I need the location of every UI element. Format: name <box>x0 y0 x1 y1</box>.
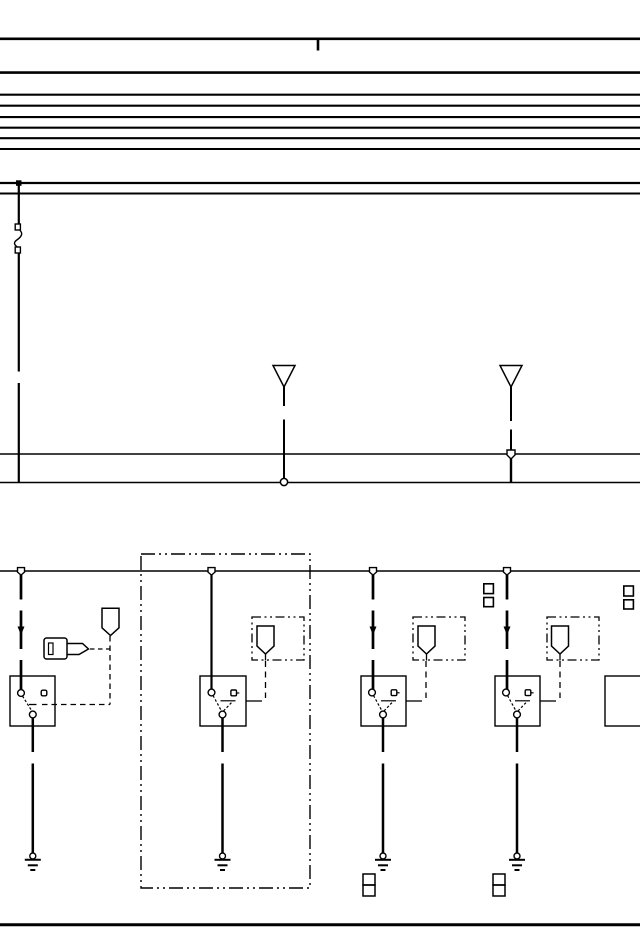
switch S1 box <box>10 676 55 726</box>
branch3 wire below box <box>382 718 385 752</box>
wire bus L13 <box>0 570 640 572</box>
branch3 wire seg b <box>372 611 375 650</box>
branch4 wire seg a <box>506 575 509 600</box>
switch S4 box <box>495 676 540 726</box>
linkage dashed vertical <box>109 636 111 705</box>
switch S1 terminal C <box>29 711 36 718</box>
branch4 wire arrow <box>504 627 511 636</box>
wire T2 mid dash <box>510 430 512 451</box>
branch1 wire below dash <box>32 764 35 854</box>
wire bus L5 <box>0 116 640 118</box>
switch S1 terminal A <box>18 690 25 697</box>
connector triangle T2 <box>500 366 522 388</box>
wire bus L10 <box>0 193 640 195</box>
enclosure dash-dot box <box>141 554 310 888</box>
linkage dashed vertical S4 <box>559 661 561 698</box>
wire breaker feed upper <box>18 183 20 224</box>
switch S3 arm dashed <box>384 701 394 711</box>
wire bus L3 <box>0 94 640 96</box>
pentagon P3 <box>418 626 435 654</box>
branch1 wire seg c <box>20 660 23 690</box>
wire bus L14 bottom <box>0 923 640 926</box>
switch S4 terminal B <box>525 690 531 696</box>
wire bus L4 <box>0 105 640 107</box>
pentagon P4 tail <box>559 654 561 661</box>
wire bus L1 <box>0 37 640 40</box>
switch S2 arm dashed <box>224 701 234 711</box>
linkage dashed S1 <box>42 704 110 706</box>
wire T2 lower <box>510 459 512 483</box>
switch S3 blade dashed <box>374 696 383 712</box>
wire bus L8 <box>0 148 640 150</box>
switch S3 box <box>361 676 406 726</box>
pentagon box P3 <box>413 617 465 660</box>
switch S1 blade dashed <box>23 696 33 711</box>
switch S4 bar <box>515 700 530 702</box>
node T2 pentagon on L11 <box>507 450 515 459</box>
ground G2 <box>215 853 231 870</box>
pentagon box P2 <box>252 617 304 660</box>
pentagon P2 tail <box>265 654 267 661</box>
switch S3 terminal A <box>369 689 376 696</box>
linkage dashed key <box>90 648 110 650</box>
branch3 wire arrow <box>370 627 377 636</box>
branch4 wire seg c <box>506 660 509 690</box>
branch2 wire <box>210 575 212 690</box>
node N1 on L13 <box>18 568 25 576</box>
branch1 wire arrow <box>18 627 25 636</box>
key symbol <box>44 638 89 659</box>
tick on bus L1 <box>317 39 320 51</box>
junction dot on L9 <box>16 180 22 186</box>
node N2 on L13 <box>208 568 215 576</box>
switch S2 terminal B <box>231 690 237 696</box>
linkage stub S4 <box>540 700 556 702</box>
branch3 wire seg c <box>372 660 375 690</box>
node N4 on L13 <box>504 568 511 576</box>
wire bus L9 <box>0 182 640 184</box>
branch4 wire below box <box>516 718 519 752</box>
wire bus L2 <box>0 71 640 74</box>
switch S4 terminal C <box>514 711 521 718</box>
connector block pair under branch3 <box>363 874 375 896</box>
pentagon P4 <box>552 626 569 654</box>
switch S2 box <box>200 676 246 726</box>
switch S2 terminal C <box>219 711 226 718</box>
switch S4 blade dashed <box>508 696 517 712</box>
switch S3 bar <box>381 700 396 702</box>
wire T1 lower <box>283 420 285 480</box>
branch2 wire below box <box>221 718 224 752</box>
ground G3 <box>375 853 391 870</box>
linkage stub S3 <box>406 700 422 702</box>
pentagon box P4 <box>547 617 599 660</box>
switch S4 arm dashed <box>518 701 528 711</box>
circuit breaker <box>15 224 22 253</box>
switch S2 blade dashed <box>213 696 222 712</box>
linkage stub S2 <box>246 700 262 702</box>
node T1 circle on L12 <box>280 478 287 485</box>
connector triangle T1 <box>273 366 295 388</box>
branch4 wire below dash <box>516 764 519 854</box>
branch3 wire below dash <box>382 764 385 854</box>
connector block pair mid right <box>624 586 634 609</box>
branch1 wire seg a <box>20 575 23 600</box>
connector block pair mid left <box>484 584 494 607</box>
pentagon P1 <box>102 608 119 635</box>
pentagon P2 <box>257 626 274 654</box>
wire bus L12 <box>0 482 640 484</box>
switch S4 terminal A <box>503 689 510 696</box>
switch S2 terminal A <box>208 689 215 696</box>
connector block pair under branch4 <box>493 874 505 896</box>
branch1 wire seg b <box>20 611 23 650</box>
ground G4 <box>509 853 525 870</box>
switch S3 terminal C <box>380 711 387 718</box>
switch S2 bar <box>221 700 236 702</box>
wire T2 upper <box>510 387 512 421</box>
branch3 wire seg a <box>372 575 375 600</box>
linkage dashed vertical S2 <box>265 661 267 698</box>
ground G1 <box>25 853 41 870</box>
wire T1 upper <box>283 387 285 406</box>
wire bus L11 <box>0 453 640 455</box>
branch4 wire seg b <box>506 611 509 650</box>
switch S1 terminal B <box>41 690 47 696</box>
pentagon P3 tail <box>426 654 428 661</box>
linkage dashed vertical S3 <box>425 661 427 698</box>
branch1 wire below box <box>32 718 35 752</box>
component box right edge <box>605 676 640 726</box>
wire breaker lower dash <box>18 383 20 483</box>
switch S3 terminal B <box>391 690 397 696</box>
node N3 on L13 <box>370 568 377 576</box>
branch2 wire below dash <box>221 764 224 854</box>
switch S1 bar <box>29 704 37 706</box>
wire bus L7 <box>0 137 640 139</box>
wire bus L6 <box>0 127 640 129</box>
wire breaker lower <box>18 253 20 372</box>
